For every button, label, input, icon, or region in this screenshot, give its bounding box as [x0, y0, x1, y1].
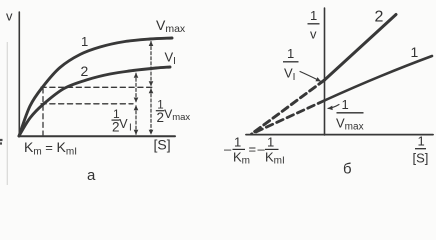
line 1 dashed extension: [252, 101, 325, 135]
svg-text:1: 1: [310, 8, 317, 23]
svg-text:Vmax: Vmax: [164, 107, 190, 123]
svg-text:[S]: [S]: [413, 151, 429, 166]
svg-text:Vmax: Vmax: [336, 116, 364, 133]
svg-text:1: 1: [267, 135, 274, 150]
svg-text:2: 2: [157, 110, 165, 125]
svg-text:VI: VI: [284, 66, 295, 84]
svg-text:VI: VI: [119, 117, 132, 134]
svg-text:Km: Km: [233, 150, 250, 167]
svg-text:KmI: KmI: [265, 150, 285, 167]
curve 1 (no inhibitor, to Vmax): [19, 38, 172, 136]
dashed half-Vmax horizontal: [41, 86, 152, 88]
scan artifact: small dark mark at left edge: [0, 140, 3, 144]
svg-text:2: 2: [375, 9, 384, 26]
arrow pair at x=151 (Vmax halves): [150, 42, 152, 86]
svg-text:а: а: [87, 167, 96, 184]
y-axis panel a: [18, 12, 20, 136]
svg-text:=: =: [249, 142, 257, 157]
svg-text:1: 1: [418, 134, 425, 149]
svg-text:Vmax: Vmax: [156, 17, 186, 35]
scan artifact: faint vertical streak near left edge: [6, 42, 8, 185]
svg-text:2: 2: [81, 63, 89, 79]
line 1 solid: [325, 56, 433, 101]
pointer arrow 1/Vi: [300, 72, 321, 82]
svg-text:[S]: [S]: [154, 137, 171, 153]
y-axis panel b: [324, 8, 326, 135]
svg-text:1: 1: [342, 97, 349, 112]
svg-text:б: б: [343, 161, 352, 178]
line 2 solid: [325, 15, 397, 81]
svg-text:v: v: [310, 27, 317, 42]
pointer arrow 1/Vmax: [328, 105, 339, 109]
x-axis panel b: [246, 134, 433, 136]
arrow pair at x=136 (Vi halves): [135, 73, 137, 102]
dashed half-Vi horizontal: [41, 103, 133, 105]
line 2 dashed extension: [252, 80, 325, 134]
x-axis panel a: [19, 135, 176, 137]
svg-text:–: –: [224, 142, 232, 157]
curve 2 (with inhibitor, to Vi): [19, 67, 170, 136]
svg-text:1: 1: [287, 46, 294, 61]
svg-text:1: 1: [234, 135, 241, 150]
svg-text:v: v: [6, 9, 13, 24]
svg-text:1: 1: [81, 34, 88, 49]
svg-text:Km = KmI: Km = KmI: [24, 139, 77, 158]
dashed Km vertical: [42, 88, 44, 135]
svg-text:VI: VI: [165, 50, 176, 68]
svg-text:1: 1: [411, 44, 419, 60]
